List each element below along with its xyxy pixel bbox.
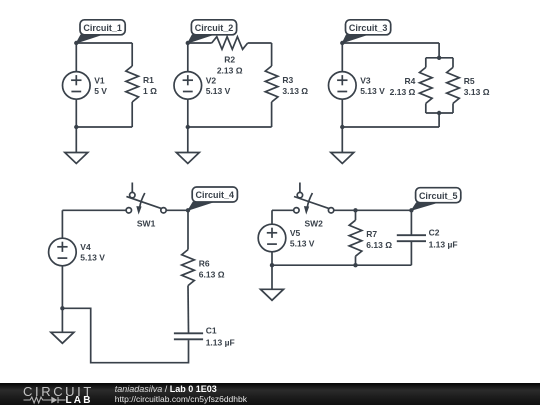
switch SW2 — [294, 183, 334, 229]
ground GND3 — [331, 153, 354, 164]
net label flag Circuit_1 — [74, 20, 125, 45]
svg-text:5 V: 5 V — [94, 86, 107, 96]
svg-text:1.13 µF: 1.13 µF — [429, 239, 458, 249]
wire V3 bottom lead — [341, 99, 343, 127]
net label flag Circuit_2 — [186, 20, 237, 45]
wire circuit3 bottom right — [342, 113, 439, 127]
wire circuit1 top — [76, 42, 132, 44]
svg-text:R6: R6 — [199, 258, 210, 268]
wire V1 bottom lead — [75, 99, 77, 127]
svg-text:R2: R2 — [224, 55, 235, 65]
wire R1 top lead — [131, 43, 133, 66]
svg-text:6.13 Ω: 6.13 Ω — [199, 269, 225, 279]
ground GND5 — [261, 289, 284, 300]
net label flag Circuit_3 — [340, 20, 391, 45]
net label flag Circuit_5 — [409, 188, 461, 213]
wire C2 top lead — [410, 210, 412, 235]
byline line 1 — [115, 385, 217, 394]
svg-text:R5: R5 — [464, 76, 475, 86]
svg-text:R7: R7 — [366, 229, 377, 239]
junction circuit2 ground node — [186, 125, 190, 129]
wire ground stem 2 — [187, 127, 189, 153]
ground GND1 — [65, 153, 88, 164]
svg-text:2.13 Ω: 2.13 Ω — [217, 66, 243, 76]
ground GND2 — [176, 153, 199, 164]
svg-text:6.13 Ω: 6.13 Ω — [366, 240, 392, 250]
svg-text:2.13 Ω: 2.13 Ω — [390, 87, 416, 97]
wire circuit5 top left — [272, 209, 294, 211]
byline line 2 — [115, 395, 247, 404]
voltage source V5 — [258, 224, 315, 252]
wire circuit3 top — [342, 43, 439, 58]
wire ground stem 1 — [75, 127, 77, 153]
wire C2 bottom lead — [410, 241, 412, 265]
voltage source V4 — [49, 238, 106, 266]
wire circuit4 switch to node — [166, 209, 188, 211]
wire R7 top lead — [355, 210, 357, 220]
wire V4 top lead — [61, 210, 63, 238]
svg-text:3.13 Ω: 3.13 Ω — [464, 87, 490, 97]
wire parallel top connector — [426, 58, 453, 68]
resistor R6 — [182, 250, 225, 286]
CircuitLab logo resistor-diode graphic — [23, 394, 93, 405]
wire parallel bottom connector — [426, 103, 453, 113]
junction circuit1 ground node — [74, 125, 78, 129]
voltage source V3 — [329, 72, 386, 100]
voltage source V1 — [63, 72, 108, 100]
svg-text:1 Ω: 1 Ω — [143, 86, 157, 96]
ground GND4 — [51, 332, 74, 343]
CircuitLab logo text CIRCUIT — [23, 384, 94, 399]
svg-text:Circuit_1: Circuit_1 — [83, 23, 122, 33]
svg-text:5.13 V: 5.13 V — [290, 239, 315, 249]
net label flag Circuit_4 — [186, 187, 238, 213]
svg-text:R3: R3 — [282, 75, 293, 85]
voltage source V2 — [174, 72, 231, 100]
footer bar — [0, 383, 540, 405]
svg-text:Circuit_5: Circuit_5 — [419, 191, 458, 201]
junction circuit3 ground node — [340, 125, 344, 129]
capacitor C1 — [174, 326, 235, 348]
svg-text:R1: R1 — [143, 75, 154, 85]
svg-text:3.13 Ω: 3.13 Ω — [282, 86, 308, 96]
svg-text:Circuit_4: Circuit_4 — [196, 190, 235, 200]
junction circuit5 ground node — [270, 263, 274, 267]
junction R7 top — [353, 208, 357, 212]
resistor R2 — [212, 37, 248, 76]
wire R3 bottom lead — [271, 102, 273, 127]
svg-text:V3: V3 — [360, 75, 371, 85]
wire circuit4 top left — [62, 209, 126, 211]
capacitor C2 — [397, 228, 458, 250]
wire ground stem 3 — [341, 127, 343, 153]
junction circuit4 ground node — [60, 306, 64, 310]
wire circuit5 bottom — [272, 264, 411, 266]
wire V1 top lead — [75, 43, 77, 72]
svg-text:R4: R4 — [405, 76, 416, 86]
wire R7 bottom lead — [355, 256, 357, 265]
resistor R3 — [265, 66, 308, 102]
svg-text:V2: V2 — [206, 75, 217, 85]
wire V2 top lead — [187, 43, 189, 72]
wire circuit2 top left — [188, 42, 212, 44]
junction parallel top — [437, 56, 441, 60]
junction parallel bottom — [437, 111, 441, 115]
wire V4 bottom lead — [61, 266, 63, 309]
wire circuit4 bottom loop — [62, 308, 188, 362]
junction R7 bottom — [353, 263, 357, 267]
wire R6 to C1 — [187, 286, 190, 333]
resistor R5 — [447, 67, 490, 103]
wire circuit2 bottom — [188, 126, 272, 128]
resistor R4 — [390, 67, 432, 103]
wire V3 top lead — [341, 43, 343, 72]
svg-text:V5: V5 — [290, 228, 301, 238]
svg-text:SW1: SW1 — [137, 219, 156, 229]
wire V2 bottom lead — [187, 99, 189, 127]
resistor R7 — [349, 220, 392, 256]
svg-text:SW2: SW2 — [304, 219, 323, 229]
wire R1 bottom lead — [131, 102, 133, 127]
svg-text:V1: V1 — [94, 75, 105, 85]
wire circuit5 switch to node — [333, 209, 411, 211]
svg-text:Circuit_2: Circuit_2 — [195, 23, 234, 33]
svg-text:C1: C1 — [206, 326, 217, 336]
svg-text:5.13 V: 5.13 V — [80, 253, 105, 263]
resistor R1 — [126, 66, 157, 102]
svg-text:Circuit_3: Circuit_3 — [349, 23, 388, 33]
wire R6 top lead — [187, 210, 189, 249]
svg-text:1.13 µF: 1.13 µF — [206, 338, 235, 348]
svg-text:C2: C2 — [429, 228, 440, 238]
logo text LAB — [66, 395, 93, 405]
wire ground stem 4 — [61, 308, 63, 332]
wire ground stem 5 — [271, 265, 273, 289]
wire V5 top lead — [271, 210, 273, 224]
switch SW1 — [126, 183, 166, 229]
svg-text:5.13 V: 5.13 V — [360, 86, 385, 96]
wire circuit2 top right — [248, 43, 272, 66]
wire circuit1 bottom — [76, 126, 132, 128]
svg-text:5.13 V: 5.13 V — [206, 86, 231, 96]
svg-text:V4: V4 — [80, 242, 91, 252]
wire V5 bottom lead — [271, 252, 273, 265]
